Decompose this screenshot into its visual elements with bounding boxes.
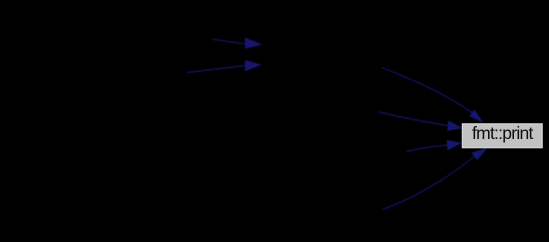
edge 6: hidden node to fmt::print (bottom curve) [383, 156, 475, 209]
edge 4: hidden node to fmt::print (middle line) [379, 112, 448, 126]
edge 3 arrowhead [469, 110, 484, 124]
node fmt::print (highlighted) [462, 124, 542, 148]
edge 1: caller top-left to hidden node (line) [213, 39, 245, 44]
edge 4 arrowhead [447, 120, 462, 130]
edge 2 arrowhead [245, 60, 262, 71]
edge 2: caller left to hidden node (line) [187, 66, 245, 73]
edge 6 arrowhead [471, 148, 487, 161]
edge 5: hidden node to fmt::print (lower line) [406, 145, 447, 151]
edge 5 arrowhead [447, 140, 463, 151]
edge 1 arrowhead [245, 37, 262, 48]
edge 3: hidden node to fmt::print (top curve) [382, 68, 472, 113]
svg-text:fmt::print: fmt::print [472, 123, 533, 143]
